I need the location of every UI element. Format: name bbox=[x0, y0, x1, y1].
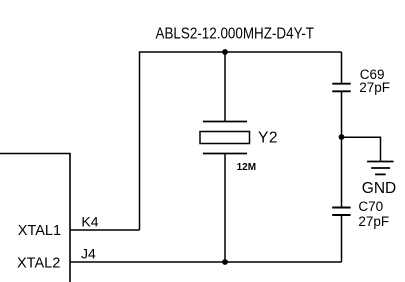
ground symbol bbox=[367, 162, 393, 175]
pin wire XTAL1 bbox=[70, 229, 140, 231]
crystal Y2 bbox=[200, 122, 250, 154]
svg-text:J4: J4 bbox=[81, 246, 96, 262]
wire crystal bottom stub bbox=[224, 154, 226, 263]
wire to ground bbox=[342, 137, 381, 161]
svg-text:12M: 12M bbox=[237, 162, 256, 173]
svg-text:XTAL2: XTAL2 bbox=[17, 256, 60, 272]
capacitor C69 bbox=[332, 52, 350, 137]
junction top (crystal top / net) bbox=[222, 49, 228, 55]
junction mid (C69/C70/GND) bbox=[339, 134, 345, 140]
svg-text:XTAL1: XTAL1 bbox=[18, 223, 61, 239]
wire crystal top stub bbox=[224, 52, 226, 122]
wire top net (XTAL1 to C69) bbox=[140, 52, 342, 230]
capacitor C70 bbox=[332, 137, 350, 262]
svg-text:GND: GND bbox=[362, 180, 396, 197]
svg-text:27pF: 27pF bbox=[358, 214, 389, 229]
IC box edge (partial symbol) bbox=[0, 154, 70, 282]
svg-text:C70: C70 bbox=[358, 199, 383, 214]
svg-text:K4: K4 bbox=[81, 214, 98, 230]
svg-text:ABLS2-12.000MHZ-D4Y-T: ABLS2-12.000MHZ-D4Y-T bbox=[156, 25, 315, 42]
svg-text:Y2: Y2 bbox=[258, 129, 278, 146]
svg-text:27pF: 27pF bbox=[359, 80, 390, 95]
wire bottom net (XTAL2 to C70) bbox=[70, 261, 342, 263]
junction bottom (crystal bottom / net) bbox=[222, 259, 228, 265]
